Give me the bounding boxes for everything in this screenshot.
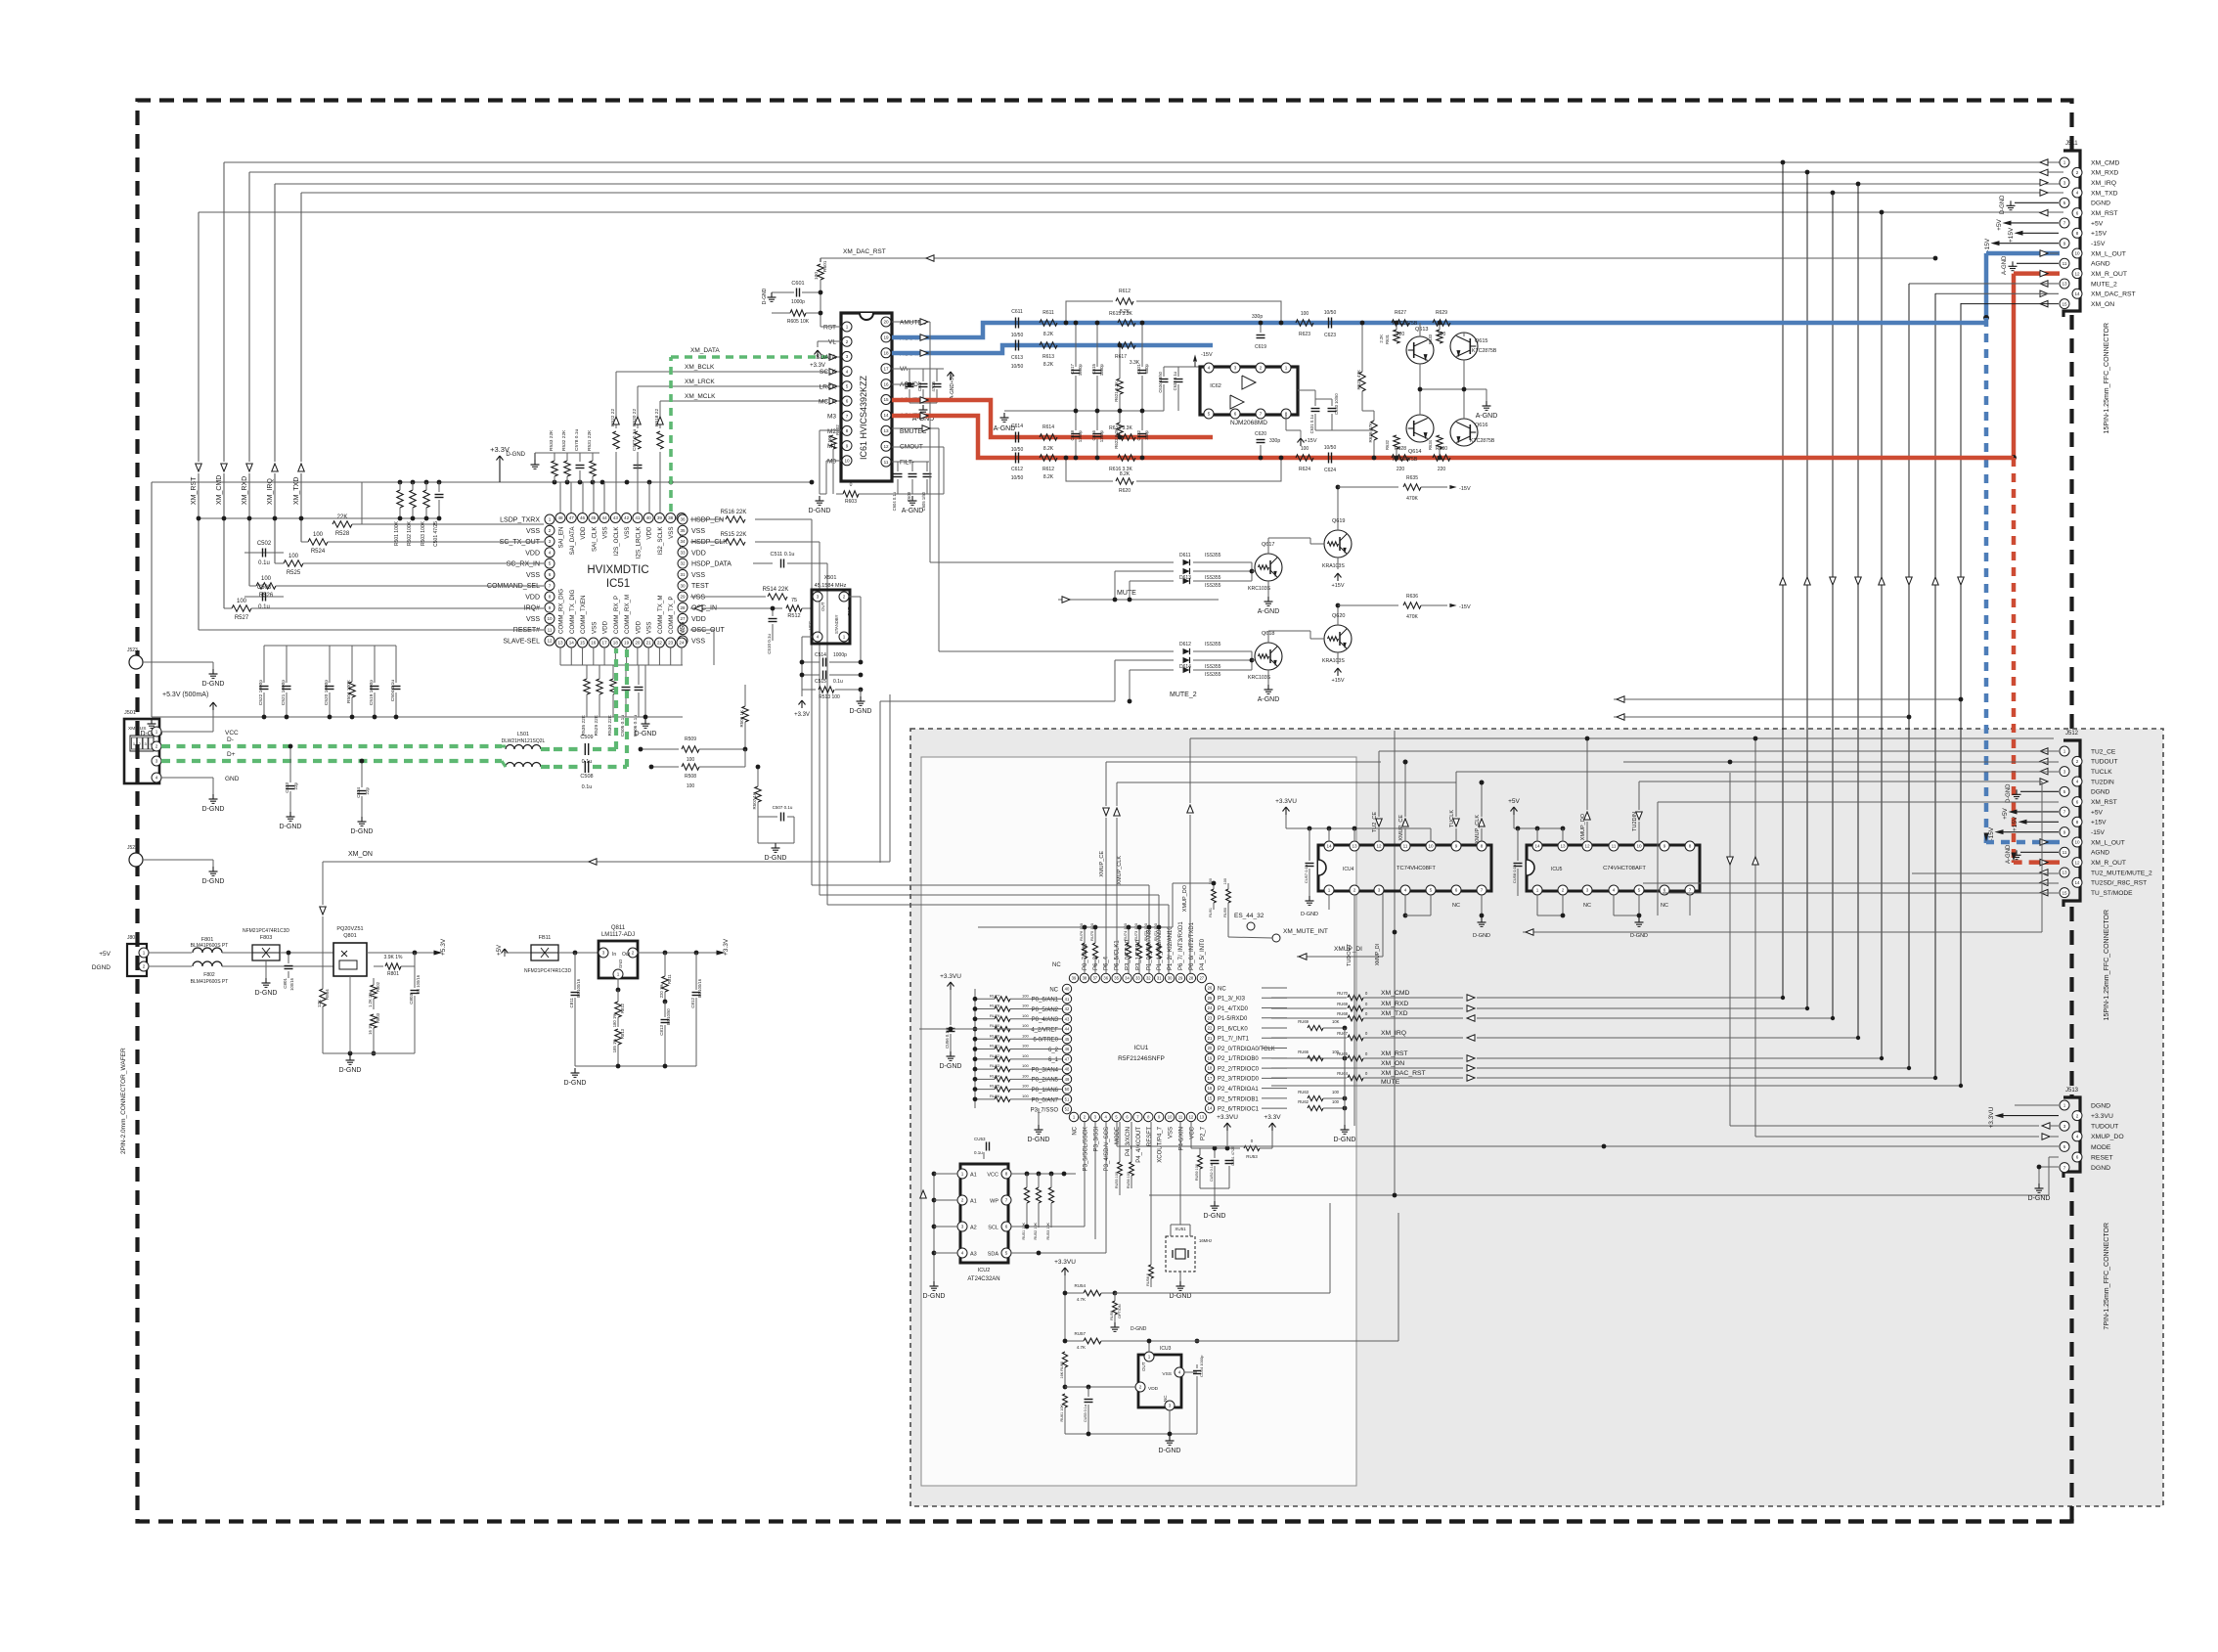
- svg-text:R811: R811: [667, 974, 672, 984]
- wire vertical bus x=1924: [1881, 212, 1883, 1058]
- svg-text:6: 6: [1663, 888, 1666, 893]
- svg-text:3: 3: [817, 595, 820, 600]
- svg-text:RU80: RU80: [990, 1023, 1000, 1028]
- wire XM_RXD vertical drop: [248, 172, 250, 462]
- svg-text:TUDOUT: TUDOUT: [1347, 943, 1353, 966]
- ground A-GND Q618: [1267, 670, 1269, 685]
- wire arrow J511: [2040, 190, 2048, 197]
- svg-text:100: 100: [1022, 993, 1029, 998]
- svg-text:5: 5: [1005, 1251, 1008, 1256]
- wire arrow J511: [2040, 290, 2048, 297]
- connector J512 pin 9 -15V: [2060, 827, 2069, 837]
- svg-text:R531 22K: R531 22K: [587, 429, 593, 451]
- capacitor C619: [1260, 323, 1262, 333]
- resistor R611: [1040, 320, 1057, 326]
- connector J511 body: [2063, 151, 2080, 317]
- svg-text:XMUP_CLK: XMUP_CLK: [1117, 856, 1123, 885]
- resistor RU91 RU90: [1212, 889, 1217, 903]
- svg-text:VSS: VSS: [646, 622, 653, 634]
- svg-text:R533 22K: R533 22K: [549, 429, 554, 451]
- svg-text:42: 42: [1065, 1006, 1070, 1011]
- svg-text:C520 1000p: C520 1000p: [324, 680, 330, 705]
- dac IC61 body: [841, 313, 892, 481]
- svg-text:330p: 330p: [1144, 363, 1149, 373]
- svg-text:XM_MUTE_INT: XM_MUTE_INT: [1283, 928, 1328, 935]
- wire RU pulldown rail: [1344, 1028, 1346, 1125]
- svg-text:2: 2: [961, 1198, 964, 1203]
- svg-text:D+: D+: [227, 751, 236, 758]
- wire OSC_IN: [690, 607, 782, 609]
- wire mute node A: [1251, 562, 1253, 581]
- mcu ICU1 top pins: [1069, 973, 1078, 982]
- op-amp IC62 triangle B: [1230, 395, 1244, 409]
- svg-text:R626 47K: R626 47K: [1368, 422, 1373, 442]
- svg-text:5: 5: [1638, 888, 1641, 893]
- svg-text:SCLK: SCLK: [820, 369, 837, 376]
- wire XM_DATA green: [669, 357, 673, 512]
- svg-text:44: 44: [1065, 1027, 1070, 1032]
- svg-text:180 1%: 180 1%: [612, 1013, 617, 1027]
- svg-text:18: 18: [613, 641, 619, 646]
- svg-text:D-GND: D-GND: [280, 824, 302, 830]
- svg-text:D-GND: D-GND: [1204, 1213, 1226, 1220]
- wire Q614 Q616 tie: [1419, 389, 1421, 415]
- connector J511 pin 12 XM_R_OUT: [2072, 269, 2082, 279]
- wire top rail corner: [1172, 883, 1174, 927]
- svg-text:50: 50: [1065, 1087, 1070, 1092]
- ground A-GND under FILT: [911, 496, 913, 501]
- svg-text:36: 36: [680, 517, 686, 522]
- svg-text:SDA: SDA: [988, 1252, 999, 1258]
- svg-text:2: 2: [155, 744, 158, 749]
- svg-text:44: 44: [602, 515, 608, 520]
- wire junction bus: [1831, 1016, 1835, 1020]
- connector J512 pin 2 TUDOUT: [2072, 756, 2082, 766]
- svg-text:20: 20: [635, 641, 641, 646]
- svg-text:D-GND: D-GND: [1028, 1137, 1050, 1143]
- svg-text:P2_3/TRDIOD0: P2_3/TRDIOD0: [1218, 1077, 1260, 1083]
- resistor R620 feedback: [1066, 458, 1113, 481]
- dac IC61 left pins: [842, 322, 852, 332]
- capacitor C614: [1015, 432, 1017, 443]
- svg-text:R508: R508: [685, 774, 696, 780]
- wire 4_2/VREF run: [919, 1028, 1062, 1030]
- svg-text:8: 8: [2076, 231, 2079, 236]
- wire XMUP_DO drop: [1586, 822, 1588, 841]
- svg-text:C634 10/50: C634 10/50: [1158, 371, 1163, 392]
- svg-text:NFM21PC474R1C3D: NFM21PC474R1C3D: [524, 968, 571, 974]
- resistor R535 R529 R530 capacitor C505 C506 cluster: [584, 679, 590, 694]
- svg-text:R621 8.2K: R621 8.2K: [1114, 381, 1119, 402]
- svg-text:XM_ON: XM_ON: [2091, 301, 2114, 308]
- svg-text:RU63: RU63: [1298, 1090, 1309, 1094]
- svg-text:1: 1: [846, 325, 849, 330]
- svg-text:9: 9: [846, 443, 849, 448]
- svg-text:R627: R627: [1395, 310, 1406, 316]
- wire AOUTA- blue: [892, 323, 1986, 337]
- svg-text:A3: A3: [970, 1252, 977, 1258]
- svg-text:5: 5: [2063, 1144, 2066, 1149]
- resistor R615: [1118, 320, 1135, 326]
- svg-text:J511: J511: [2065, 141, 2078, 147]
- svg-text:C521 1000p: C521 1000p: [281, 680, 287, 705]
- svg-text:IC61 HVICS4392KZZ: IC61 HVICS4392KZZ: [859, 375, 868, 460]
- resistor R526: [256, 583, 276, 589]
- svg-text:ISS355: ISS355: [1205, 642, 1221, 647]
- wire A-GND mid rail: [1004, 410, 1164, 412]
- op-amp IC62 bottom pins: [1204, 409, 1214, 419]
- svg-text:D611: D611: [1179, 553, 1191, 558]
- svg-text:P0_5/AN2: P0_5/AN2: [1032, 1007, 1059, 1013]
- svg-text:R813: R813: [620, 1028, 625, 1039]
- svg-text:KRA103S: KRA103S: [1322, 563, 1345, 569]
- svg-text:6: 6: [846, 399, 849, 404]
- svg-text:RU57: RU57: [1074, 1331, 1086, 1336]
- svg-text:HSDP_DATA: HSDP_DATA: [691, 561, 732, 568]
- svg-text:4: 4: [1178, 1370, 1181, 1375]
- svg-text:RU67: RU67: [1337, 1031, 1348, 1036]
- wire arrow J511: [2040, 159, 2048, 166]
- wire arrow AOUTA+: [920, 350, 928, 357]
- wire CMOUT loop: [892, 446, 944, 448]
- connector J511 pin 11 AGND: [2060, 258, 2069, 268]
- svg-text:10: 10: [1636, 844, 1642, 849]
- svg-text:Q615: Q615: [1475, 338, 1487, 344]
- svg-text:RU64: RU64: [1337, 1071, 1348, 1076]
- connector J512 pin 6 XM_RST: [2072, 797, 2082, 807]
- power +3.3V mcu bottom: [1271, 1123, 1273, 1131]
- svg-text:32: 32: [680, 561, 686, 566]
- svg-text:1000p: 1000p: [791, 299, 805, 305]
- op-amp IC62 body: [1200, 367, 1298, 415]
- svg-text:16MHz: 16MHz: [1199, 1238, 1212, 1243]
- svg-text:330p: 330p: [1269, 438, 1280, 444]
- svg-text:4: 4: [1613, 888, 1616, 893]
- svg-text:470K: 470K: [1406, 496, 1418, 502]
- svg-text:TC74VHC08FT: TC74VHC08FT: [1397, 866, 1436, 871]
- svg-text:10: 10: [1428, 844, 1434, 849]
- resistor R804: [320, 989, 326, 1006]
- resistor R613: [1040, 342, 1057, 348]
- ground at J512 pin5: [2020, 790, 2059, 792]
- capacitor CU55: [1087, 1387, 1089, 1397]
- svg-text:3: 3: [549, 539, 552, 544]
- svg-text:8.2K: 8.2K: [1120, 471, 1131, 477]
- ground D-GND under IC51: [644, 719, 646, 724]
- svg-text:P1_4/TXD0: P1_4/TXD0: [1218, 1006, 1249, 1012]
- wire XM_CMD vertical drop: [223, 162, 225, 462]
- svg-text:XM_RXD: XM_RXD: [242, 476, 248, 505]
- svg-text:CU58 0.1u: CU58 0.1u: [1512, 865, 1517, 883]
- svg-text:6: 6: [2076, 1155, 2079, 1160]
- wire XM_RST to J512: [1658, 801, 2059, 803]
- svg-text:P6_5/CLK1: P6_5/CLK1: [1115, 940, 1121, 970]
- svg-text:-15V: -15V: [2091, 829, 2106, 836]
- svg-text:KTC2875B: KTC2875B: [1393, 457, 1418, 463]
- svg-text:2: 2: [1353, 888, 1356, 893]
- svg-text:VCC: VCC: [1189, 1126, 1195, 1139]
- svg-text:GND: GND: [618, 960, 623, 968]
- svg-text:VDD: VDD: [691, 550, 706, 557]
- svg-text:2: 2: [2076, 759, 2079, 764]
- ground D-GND J501: [212, 794, 214, 799]
- transistor Q618: [1255, 643, 1282, 670]
- svg-text:2: 2: [549, 528, 552, 533]
- svg-text:+5V: +5V: [1508, 798, 1520, 805]
- wire vertical bus x=1900: [1857, 184, 1859, 1038]
- svg-text:R526: R526: [259, 593, 274, 599]
- svg-text:100: 100: [1022, 1073, 1029, 1078]
- connector J513 body: [2063, 1097, 2080, 1178]
- svg-text:I2S_LRCLK: I2S_LRCLK: [635, 526, 642, 559]
- svg-text:6_2: 6_2: [1048, 1048, 1059, 1053]
- svg-text:16: 16: [591, 641, 597, 646]
- svg-text:R509: R509: [685, 737, 696, 742]
- ground A-GND filter: [1003, 413, 1005, 418]
- wire XM_IRQ vertical drop: [274, 184, 276, 462]
- svg-text:3: 3: [2063, 1124, 2066, 1129]
- svg-text:1: 1: [2063, 160, 2066, 165]
- wire IC51 top pin risers: [559, 482, 561, 513]
- svg-text:2: 2: [1562, 888, 1565, 893]
- svg-text:XM_L_OUT: XM_L_OUT: [2091, 250, 2126, 257]
- svg-text:RU86: RU86: [990, 1094, 1000, 1098]
- svg-text:CU51 47/25: CU51 47/25: [1231, 1146, 1235, 1166]
- svg-text:R612: R612: [1119, 289, 1131, 294]
- connector J512 body: [2063, 740, 2080, 907]
- svg-text:XM_CMD: XM_CMD: [2091, 159, 2120, 166]
- svg-text:48: 48: [1065, 1067, 1070, 1072]
- svg-text:HSDP_EN: HSDP_EN: [691, 517, 724, 524]
- svg-text:21: 21: [1208, 1036, 1213, 1041]
- svg-text:C618: C618: [1070, 429, 1075, 440]
- pad XM_MUTE_INT: [1272, 934, 1280, 942]
- svg-text:52: 52: [1065, 1107, 1070, 1112]
- wire IRQ link: [224, 607, 232, 609]
- capacitor C623: [1328, 318, 1330, 329]
- svg-text:M3: M3: [827, 414, 836, 421]
- svg-text:3: 3: [602, 951, 605, 956]
- svg-text:OUT: OUT: [821, 602, 825, 611]
- wire XMUP_CLK drop: [1481, 828, 1483, 841]
- wire ICU3 gnd rail: [1065, 1433, 1197, 1435]
- logic ICU5 body: [1527, 845, 1700, 891]
- svg-text:+5V: +5V: [497, 945, 503, 956]
- svg-text:D-GND: D-GND: [1473, 933, 1490, 939]
- svg-text:7: 7: [1481, 888, 1484, 893]
- svg-text:30: 30: [680, 583, 686, 588]
- svg-text:1: 1: [1536, 888, 1539, 893]
- svg-text:3: 3: [846, 354, 849, 359]
- svg-text:D-GND: D-GND: [1301, 912, 1318, 917]
- svg-text:46: 46: [580, 515, 586, 520]
- svg-text:R501 100K: R501 100K: [394, 520, 400, 546]
- svg-text:PQ20VZ51: PQ20VZ51: [336, 926, 363, 932]
- svg-text:KRA103S: KRA103S: [1322, 658, 1345, 664]
- svg-text:6_1: 6_1: [1048, 1057, 1059, 1063]
- svg-text:E4 10/50: E4 10/50: [666, 1008, 671, 1025]
- svg-text:-15V: -15V: [1984, 238, 1991, 251]
- resistor R813: [615, 1029, 621, 1045]
- resistor R520 and wire XM_LRCK: [637, 452, 639, 513]
- svg-text:COMMAND_SEL: COMMAND_SEL: [487, 583, 540, 590]
- resistor R612b: [1040, 455, 1057, 461]
- capacitor C577: [637, 453, 639, 462]
- svg-text:P1_3/_KI3: P1_3/_KI3: [1218, 997, 1246, 1003]
- svg-text:IC51: IC51: [606, 578, 630, 590]
- svg-text:VSS: VSS: [1162, 1371, 1172, 1377]
- svg-text:RU77: RU77: [990, 993, 1000, 998]
- svg-text:24: 24: [1208, 1005, 1213, 1010]
- svg-text:4: 4: [2076, 780, 2079, 784]
- resistor R528: [333, 521, 352, 527]
- svg-text:Q801: Q801: [343, 933, 356, 939]
- svg-text:12: 12: [883, 444, 889, 449]
- wire junction: [1805, 170, 1810, 175]
- svg-text:185 1%: 185 1%: [612, 1039, 617, 1052]
- svg-text:R629: R629: [1436, 310, 1447, 316]
- wire XMUP_CE drop: [1404, 828, 1406, 841]
- resistor R602: [830, 435, 836, 449]
- svg-text:C617: C617: [1070, 363, 1075, 374]
- capacitor CU53: [983, 1152, 985, 1159]
- svg-text:A-GND: A-GND: [1258, 608, 1280, 615]
- svg-text:3: 3: [1378, 888, 1381, 893]
- connector J513 pin 1 DGND: [2060, 1100, 2069, 1110]
- dac IC61 right pins: [881, 317, 891, 327]
- svg-text:D-GND: D-GND: [635, 731, 657, 737]
- svg-text:DGND: DGND: [2091, 789, 2110, 796]
- svg-text:VSS: VSS: [526, 528, 540, 535]
- svg-text:P0_0/AN7: P0_0/AN7: [1032, 1097, 1059, 1103]
- wire TU2_CE to J512: [1379, 750, 2059, 752]
- wire R508 R509 joined: [744, 749, 746, 767]
- svg-text:41: 41: [1065, 997, 1070, 1002]
- svg-text:R633: R633: [1428, 334, 1433, 344]
- connector J511 pin 14 XM_DAC_RST: [2072, 289, 2082, 298]
- svg-text:VSS: VSS: [526, 572, 540, 579]
- svg-text:100: 100: [1301, 311, 1309, 317]
- resistor R627: [1392, 320, 1409, 326]
- ground A-GND Q617: [1267, 581, 1269, 597]
- wire XM_DAC_RST to J511 pin14: [1935, 292, 2059, 294]
- ground at J513 pin7: [2039, 1166, 2059, 1168]
- svg-text:38: 38: [1083, 976, 1087, 981]
- svg-text:ICU5: ICU5: [1551, 867, 1563, 872]
- connector J511 pin 2 XM_RXD: [2072, 167, 2082, 177]
- svg-text:D-GND: D-GND: [1159, 1448, 1181, 1454]
- wire XMUP_DO to J513: [1755, 1136, 2039, 1138]
- svg-text:X501: X501: [824, 575, 837, 581]
- svg-text:100: 100: [1022, 1044, 1029, 1049]
- wire VCC: [161, 731, 213, 733]
- svg-text:J522: J522: [127, 845, 138, 851]
- svg-text:4_2/VREF: 4_2/VREF: [1031, 1027, 1058, 1033]
- svg-text:VSS: VSS: [691, 638, 705, 645]
- svg-text:+15V: +15V: [2091, 820, 2107, 826]
- svg-text:D-GND: D-GND: [339, 1067, 362, 1074]
- svg-text:TUCLK: TUCLK: [1449, 810, 1455, 827]
- svg-text:23: 23: [668, 641, 674, 646]
- svg-text:D-GND: D-GND: [564, 1080, 587, 1087]
- svg-text:10: 10: [1168, 1115, 1173, 1120]
- svg-text:VA: VA: [900, 366, 909, 373]
- capacitor C523: [289, 746, 291, 782]
- svg-text:R804: R804: [325, 989, 330, 1000]
- wire XM_DAC_RST: [821, 257, 1935, 259]
- svg-text:C507 0.1u: C507 0.1u: [773, 805, 793, 810]
- svg-text:C803: C803: [409, 994, 414, 1005]
- resistor RU66 100: [1308, 1055, 1323, 1060]
- svg-text:100: 100: [827, 435, 832, 443]
- op-amp IC51 bottom pins: [555, 638, 565, 647]
- resistor R622: [1117, 423, 1123, 438]
- wire M2 M0 ties: [820, 429, 841, 431]
- connector J511 pin 6 XM_RST: [2072, 208, 2082, 218]
- wire SCL SDA runs: [1011, 1226, 1085, 1228]
- resistor R514: [690, 596, 766, 598]
- resistor R803: [371, 1014, 377, 1028]
- wire XM_L_OUT blue to J511 pin10: [1986, 251, 2060, 256]
- diode D611: [930, 561, 1174, 563]
- svg-text:7: 7: [2063, 221, 2066, 226]
- svg-text:RU59 100: RU59 100: [1195, 1164, 1199, 1181]
- resistor R612 feedback: [1066, 301, 1113, 323]
- wire XMUP_DI: [1297, 956, 1383, 958]
- wire arrow J512: [2040, 889, 2048, 896]
- svg-text:100: 100: [1332, 1049, 1340, 1054]
- svg-text:+15V: +15V: [2091, 231, 2107, 238]
- svg-text:P2_1/TRDIOB0: P2_1/TRDIOB0: [1218, 1056, 1259, 1062]
- wire GND pin4: [161, 777, 213, 779]
- svg-text:A-GND: A-GND: [994, 425, 1016, 432]
- svg-text:C501 47/25: C501 47/25: [433, 521, 439, 547]
- capacitor C509: [554, 747, 581, 751]
- svg-text:22: 22: [1208, 1026, 1213, 1031]
- svg-text:11: 11: [1612, 844, 1617, 849]
- svg-text:+5.3V (500mA): +5.3V (500mA): [162, 692, 208, 698]
- svg-text:C601: C601: [791, 281, 804, 287]
- transistor Q616: [1450, 419, 1478, 446]
- svg-text:DGND: DGND: [92, 964, 111, 971]
- svg-text:MUTE_2: MUTE_2: [1170, 692, 1197, 698]
- svg-text:+15V: +15V: [1305, 438, 1317, 444]
- svg-text:0.1u: 0.1u: [833, 679, 843, 685]
- wire vertical bus x=1823: [1782, 162, 1784, 998]
- svg-text:KRC103S: KRC103S: [1248, 586, 1271, 592]
- svg-text:Q619: Q619: [1332, 518, 1345, 524]
- page border right overlay: [2069, 907, 2073, 1097]
- svg-text:RU76 100: RU76 100: [1079, 922, 1084, 941]
- power +5V ICU5: [1513, 807, 1515, 815]
- svg-text:IC62: IC62: [1210, 383, 1221, 389]
- svg-text:1200p: 1200p: [1099, 363, 1104, 376]
- resistor R616: [1118, 455, 1135, 461]
- svg-text:+3.3VU: +3.3VU: [1275, 798, 1297, 805]
- svg-text:VDD: VDD: [646, 526, 653, 540]
- svg-text:STANDBY: STANDBY: [834, 614, 839, 634]
- svg-text:C509: C509: [580, 735, 593, 740]
- wire XM_L_OUT blue vertical: [1984, 253, 1989, 318]
- resistor R630: [1433, 455, 1450, 461]
- svg-text:R622 8.2K: R622 8.2K: [1114, 428, 1119, 449]
- capacitor C514: [802, 661, 820, 663]
- svg-text:R527: R527: [235, 615, 249, 621]
- svg-text:1: 1: [155, 730, 158, 735]
- svg-text:J501: J501: [124, 710, 136, 716]
- svg-text:C607: C607: [917, 380, 922, 391]
- svg-text:RU56 100: RU56 100: [1127, 1172, 1131, 1188]
